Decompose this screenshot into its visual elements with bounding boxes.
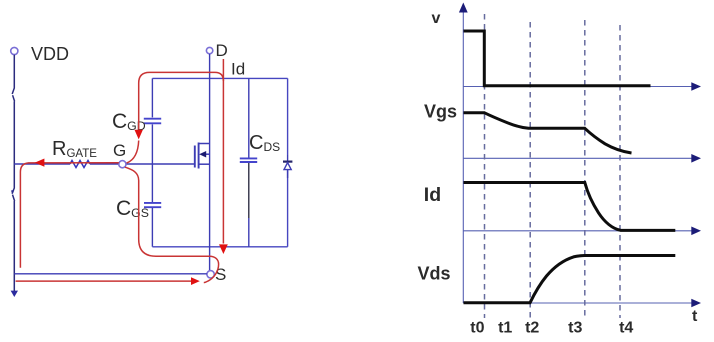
body diode D1 (287, 155, 289, 163)
wire left vertical from VDD (12, 55, 15, 291)
wire CDS to rail (248, 218, 250, 247)
axis t bottom (463, 302, 691, 304)
axis Vgs row (463, 157, 691, 159)
svg-text:S: S (215, 265, 226, 284)
gridline t4 dashed (619, 25, 621, 318)
waveform Vgs (464, 113, 632, 153)
svg-text:t3: t3 (568, 320, 582, 337)
gridline t2 dashed (529, 22, 531, 318)
wire source rail (14, 273, 207, 275)
wire CGD branch vertical (151, 78, 153, 164)
capacitor CGS (144, 203, 161, 207)
svg-text:Vds: Vds (418, 264, 451, 284)
svg-text:t2: t2 (525, 320, 539, 337)
wire CDS branch vertical (248, 78, 250, 218)
body arrow (203, 153, 210, 155)
terminal D (206, 47, 212, 53)
gridline t3 dashed (584, 20, 586, 318)
current path red Id vertical (222, 59, 224, 244)
gridline t0 dashed (484, 14, 486, 318)
current path red CGD to G (127, 141, 139, 164)
terminal VDD (11, 47, 18, 54)
svg-text:t4: t4 (619, 320, 633, 337)
svg-text:G: G (113, 141, 126, 160)
waveform Vds (464, 256, 676, 303)
arrow red gate left (35, 159, 45, 167)
svg-text:Id: Id (231, 60, 245, 79)
wire drain-source main vertical (209, 54, 211, 271)
node G (119, 161, 126, 168)
resistor RGATE (70, 161, 90, 168)
svg-text:t1: t1 (498, 320, 512, 337)
gate plate (194, 146, 196, 168)
svg-text:t0: t0 (470, 320, 484, 337)
current path red top D to CGD (139, 72, 224, 129)
wire gate horizontal (14, 163, 195, 165)
drain stub (199, 143, 210, 145)
wire top rail (152, 77, 287, 79)
source stub (199, 163, 210, 165)
axis Id row (463, 230, 691, 232)
current path red G to S loop (125, 167, 219, 282)
svg-text:v: v (432, 10, 441, 27)
junction blob on wire break (11, 190, 14, 194)
wire right edge (287, 78, 289, 246)
arrow red bottom right (191, 277, 200, 285)
arrow axis up (459, 3, 468, 13)
svg-text:CDS: CDS (249, 132, 280, 154)
svg-text:VDD: VDD (31, 44, 69, 64)
channel (198, 143, 200, 169)
capacitor CGD (144, 119, 161, 124)
axis vertical (462, 11, 464, 303)
transistor Q1 MOSFET (195, 143, 210, 169)
capacitor CDS (240, 158, 257, 162)
svg-text:RGATE: RGATE (52, 138, 97, 160)
axis v row (463, 86, 691, 88)
wire bottom rail (152, 246, 287, 248)
current path red gate to driver (20, 163, 118, 268)
wire CDS lower dark segment (248, 163, 250, 218)
node S (207, 271, 214, 278)
svg-text:CGD: CGD (112, 110, 146, 133)
svg-text:t: t (692, 308, 698, 325)
current path red bottom return (16, 280, 192, 282)
arrow red Id down (219, 244, 228, 254)
svg-text:Vgs: Vgs (424, 101, 457, 121)
svg-text:D: D (216, 41, 228, 60)
arrow red CGD down (135, 130, 143, 140)
svg-text:Id: Id (424, 184, 441, 206)
waveform v (464, 31, 651, 86)
waveform Id (464, 183, 676, 231)
arrow down terminal bottom-left (11, 291, 18, 297)
svg-text:CGS: CGS (116, 197, 149, 220)
wire CGS branch vertical (151, 164, 153, 247)
